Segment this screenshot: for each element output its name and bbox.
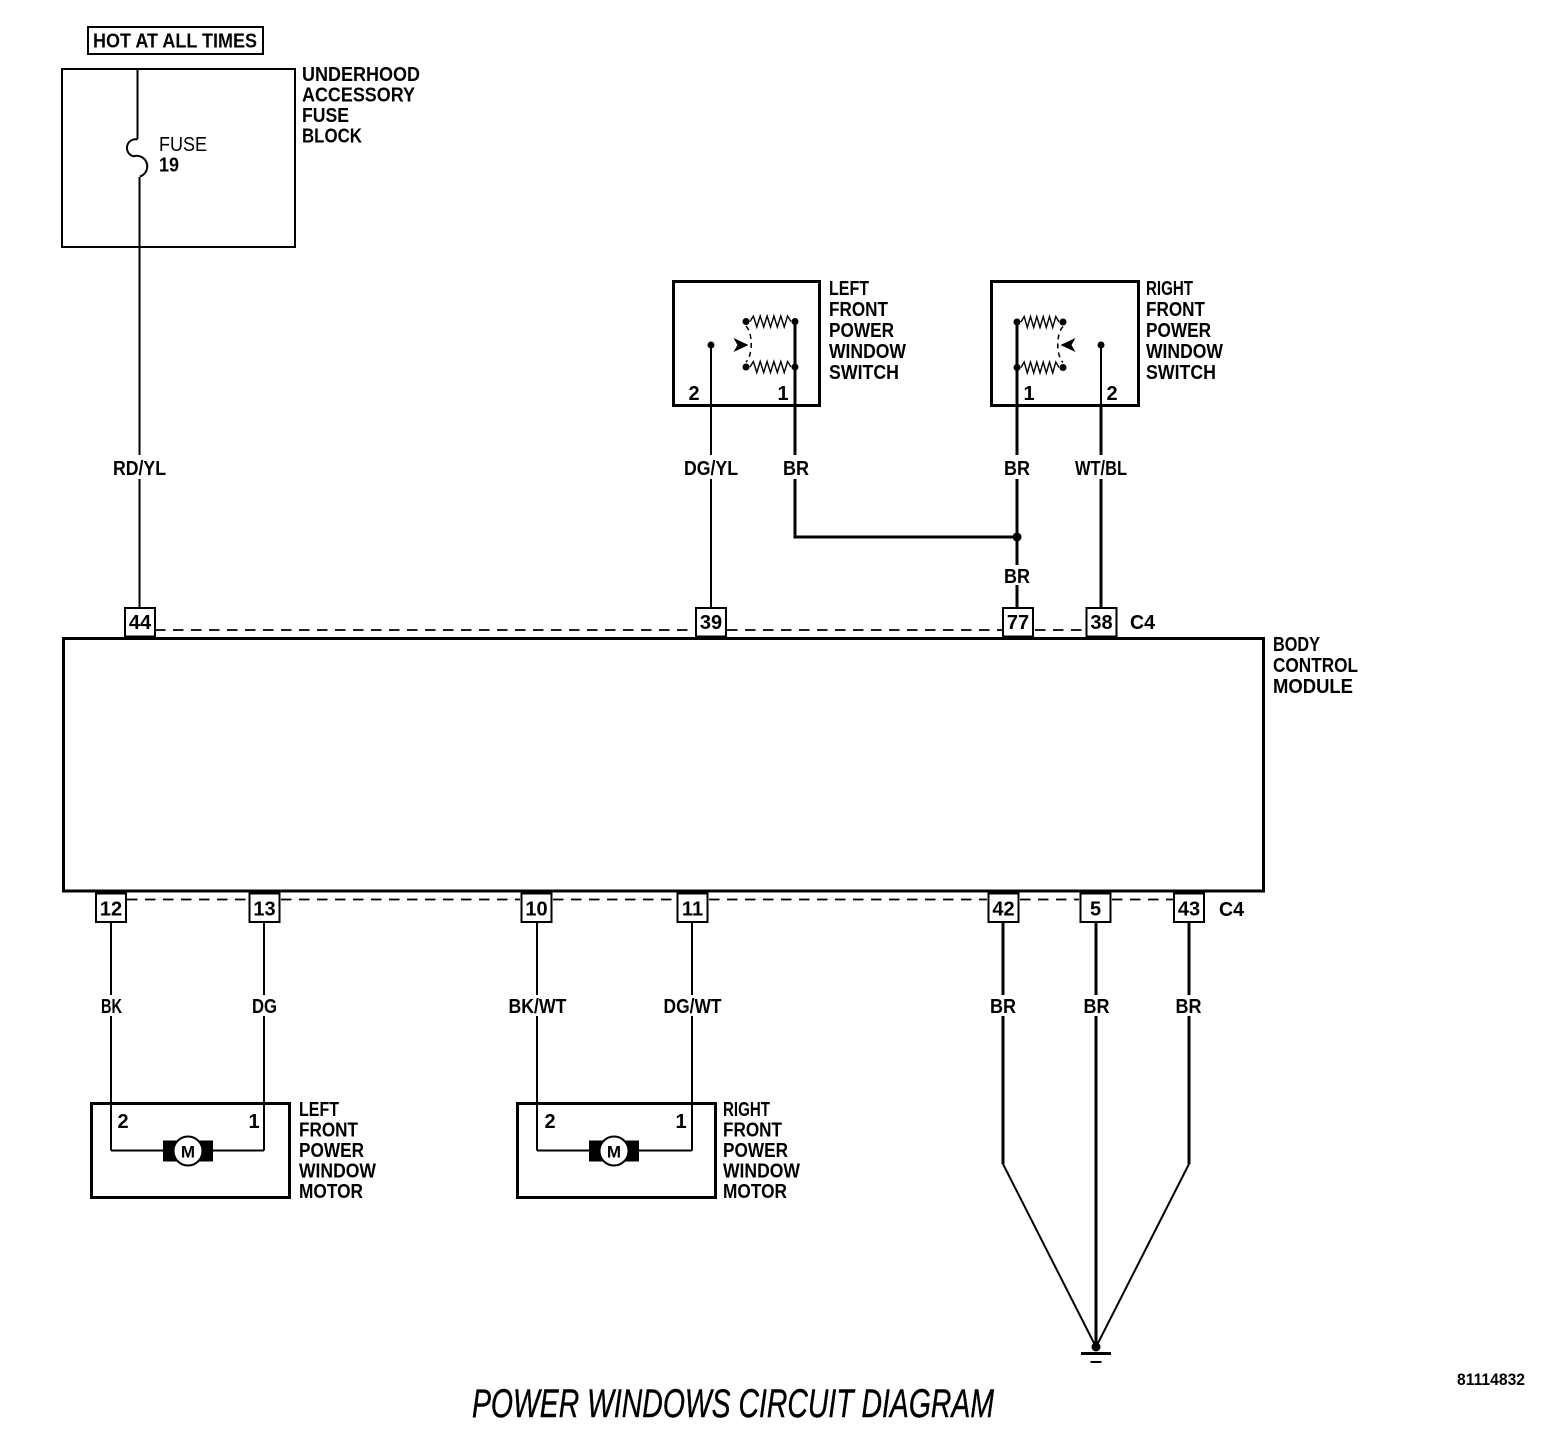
wire BR pin42 to ground [1002, 923, 1005, 995]
svg-text:1: 1 [248, 1111, 259, 1133]
wire DG/YL pin2 left switch to pin 39 [710, 405, 712, 455]
svg-text:11: 11 [682, 899, 703, 921]
svg-text:DG/YL: DG/YL [684, 458, 738, 480]
svg-text:POWER: POWER [723, 1140, 788, 1162]
svg-text:M: M [181, 1143, 195, 1162]
svg-text:RIGHT: RIGHT [723, 1099, 770, 1121]
svg-text:BR: BR [1004, 458, 1030, 480]
wire DG pin13 to left motor pin1 [263, 923, 265, 995]
svg-text:UNDERHOOD: UNDERHOOD [302, 64, 420, 86]
hot at all times box [88, 27, 263, 54]
svg-text:M: M [607, 1143, 621, 1162]
svg-text:MOTOR: MOTOR [723, 1181, 787, 1203]
wire BR right switch pin1 to junction [1016, 405, 1019, 455]
body control module box [64, 634, 1359, 891]
left front power window switch U-left [674, 278, 907, 406]
pin 2 contact dot + wire (left switch) [708, 342, 715, 349]
resistor bottom (left switch) [750, 362, 791, 373]
pin 1 wire inside (right switch) [1016, 322, 1019, 405]
right front power window motor [518, 1099, 801, 1203]
svg-text:HOT AT ALL TIMES: HOT AT ALL TIMES [93, 31, 257, 53]
svg-text:BK: BK [101, 996, 122, 1018]
svg-text:MODULE: MODULE [1273, 676, 1353, 698]
svg-text:POWER: POWER [299, 1140, 364, 1162]
wire into fuse [137, 68, 139, 139]
svg-text:39: 39 [700, 612, 722, 634]
movable contact dashed (right switch) [1058, 327, 1063, 363]
contact dots (left switch) [743, 318, 750, 325]
actuator arrow (right switch) [1061, 338, 1076, 352]
svg-text:WINDOW: WINDOW [829, 341, 906, 363]
wire WT/BL pin2 right switch to pin 38 [1100, 405, 1103, 455]
fuse F19 symbol [127, 134, 207, 177]
contact dots (right switch) [1014, 319, 1021, 326]
pin 77 [1003, 608, 1033, 637]
resistor top (left switch) [750, 316, 791, 327]
svg-text:POWER WINDOWS CIRCUIT DIAGRAM: POWER WINDOWS CIRCUIT DIAGRAM [472, 1382, 994, 1426]
svg-text:DG: DG [252, 996, 277, 1018]
movable contact dashed (left switch) [746, 326, 751, 362]
svg-text:BR: BR [1084, 996, 1110, 1018]
pin 13 [250, 894, 280, 923]
svg-text:BODY: BODY [1273, 634, 1321, 656]
svg-text:WINDOW: WINDOW [299, 1161, 376, 1183]
pin 12 [96, 894, 126, 923]
svg-text:FUSE: FUSE [302, 105, 349, 127]
svg-text:RIGHT: RIGHT [1146, 278, 1193, 300]
motor armature M [163, 1141, 213, 1162]
svg-text:LEFT: LEFT [829, 278, 869, 300]
wire BK pin12 to left motor pin2 [110, 923, 112, 995]
svg-text:5: 5 [1090, 899, 1101, 921]
wire DG/WT pin11 to right motor pin1 [691, 923, 693, 995]
svg-text:19: 19 [159, 155, 179, 177]
svg-text:2: 2 [688, 383, 699, 405]
svg-text:1: 1 [777, 383, 788, 405]
svg-text:BR: BR [990, 996, 1016, 1018]
svg-text:FRONT: FRONT [299, 1120, 358, 1142]
svg-text:DG/WT: DG/WT [664, 996, 722, 1018]
svg-text:LEFT: LEFT [299, 1099, 339, 1121]
svg-text:2: 2 [1106, 383, 1117, 405]
ground G200 [1081, 1343, 1111, 1363]
wire BR pin5 to ground [1095, 923, 1098, 995]
wire BR left switch pin1 [794, 405, 797, 455]
underhood accessory fuse block [62, 64, 420, 247]
junction BR wires [1013, 533, 1022, 542]
svg-text:POWER: POWER [1146, 320, 1211, 342]
svg-text:43: 43 [1178, 899, 1200, 921]
wire RD/YL from fuse to pin 44 [139, 177, 141, 455]
pin 5 [1081, 894, 1111, 923]
svg-text:BK/WT: BK/WT [509, 996, 567, 1018]
actuator arrow (left switch) [734, 338, 749, 352]
pin 43 [1174, 894, 1204, 923]
svg-text:BR: BR [783, 458, 809, 480]
pin 38 [1087, 608, 1117, 637]
svg-text:C4: C4 [1219, 899, 1245, 921]
resistor top (right switch) [1021, 317, 1059, 328]
svg-text:38: 38 [1090, 612, 1112, 634]
svg-text:BR: BR [1176, 996, 1202, 1018]
svg-text:RD/YL: RD/YL [113, 458, 166, 480]
svg-text:BLOCK: BLOCK [302, 126, 362, 148]
svg-text:WT/BL: WT/BL [1075, 458, 1127, 480]
resistor bottom (right switch) [1021, 362, 1059, 373]
svg-text:10: 10 [525, 899, 547, 921]
pin 10 [522, 894, 552, 923]
svg-text:12: 12 [100, 899, 122, 921]
svg-text:SWITCH: SWITCH [829, 362, 899, 384]
wire BR junction to pin 77 [1016, 585, 1019, 607]
svg-text:77: 77 [1007, 612, 1029, 634]
svg-text:ACCESSORY: ACCESSORY [302, 85, 416, 107]
svg-text:42: 42 [992, 899, 1014, 921]
svg-text:81114832: 81114832 [1457, 1370, 1525, 1389]
svg-text:FRONT: FRONT [723, 1120, 782, 1142]
svg-text:WINDOW: WINDOW [1146, 341, 1223, 363]
motor armature M [589, 1141, 639, 1162]
svg-text:2: 2 [544, 1111, 555, 1133]
svg-text:WINDOW: WINDOW [723, 1161, 800, 1183]
left front power window motor [92, 1099, 377, 1203]
pin 1 wire inside (left switch) [794, 322, 797, 406]
svg-text:1: 1 [675, 1111, 686, 1133]
svg-text:CONTROL: CONTROL [1273, 655, 1358, 677]
pin 11 [678, 894, 708, 923]
svg-text:13: 13 [253, 899, 275, 921]
dashed bus C4 top [155, 629, 1085, 631]
wire BR pin43 to ground [1188, 923, 1191, 995]
svg-text:SWITCH: SWITCH [1146, 362, 1216, 384]
svg-text:2: 2 [117, 1111, 128, 1133]
svg-text:BR: BR [1004, 566, 1030, 588]
dashed bus C4 bottom [127, 899, 1173, 901]
svg-text:POWER: POWER [829, 320, 894, 342]
pin 2 contact dot + wire (right switch) [1098, 342, 1105, 349]
svg-text:1: 1 [1023, 383, 1034, 405]
pin 42 [989, 894, 1019, 923]
right front power window switch U-right [992, 278, 1224, 406]
svg-text:MOTOR: MOTOR [299, 1181, 363, 1203]
svg-text:C4: C4 [1130, 612, 1156, 634]
svg-text:FUSE: FUSE [159, 134, 207, 156]
wire BK/WT pin10 to right motor pin2 [536, 923, 538, 995]
pin 39 [696, 608, 726, 637]
svg-text:FRONT: FRONT [829, 299, 888, 321]
svg-text:44: 44 [129, 612, 152, 634]
pin 44 [125, 608, 155, 637]
svg-text:FRONT: FRONT [1146, 299, 1205, 321]
